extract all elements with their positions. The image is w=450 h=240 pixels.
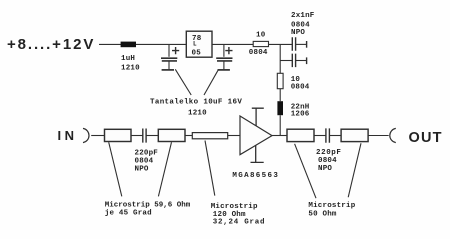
svg-text:NPO: NPO xyxy=(291,29,305,37)
svg-text:je 45 Grad: je 45 Grad xyxy=(105,209,152,217)
resistor R2 10 0804 (vertical) xyxy=(277,73,283,88)
svg-text:Microstrip: Microstrip xyxy=(211,203,258,211)
wire R2 to L2 xyxy=(279,89,281,102)
svg-text:1uH: 1uH xyxy=(121,55,135,63)
svg-text:0804: 0804 xyxy=(249,49,268,57)
ground bar under C1 xyxy=(162,69,174,71)
wire R1 to node A xyxy=(269,43,293,45)
microstrip MS3 thin box xyxy=(192,133,227,139)
microstrip MS1 box xyxy=(105,129,132,141)
capacitor C4 1nF lower: plates xyxy=(292,54,295,68)
op-amp U1 MGA86563 triangle xyxy=(240,116,272,155)
wire MS5 to OUT jack xyxy=(368,135,389,137)
leader line C1 to Tantalelko label xyxy=(175,69,191,95)
wire rail regulator to resistor xyxy=(212,43,253,45)
ground bar under C2 xyxy=(218,69,230,71)
wire supply rail left xyxy=(99,43,121,45)
svg-text:IN: IN xyxy=(58,128,78,143)
microstrip MS2 box xyxy=(158,129,185,141)
leader line MS1 to microstrip label xyxy=(109,142,122,196)
svg-text:Tantalelko 10uF 16V: Tantalelko 10uF 16V xyxy=(150,98,242,106)
svg-text:MGA86563: MGA86563 xyxy=(232,172,279,180)
capacitor C1 tantalum 10uF: drop wire xyxy=(168,44,170,56)
svg-text:Microstrip 59,6 Ohm: Microstrip 59,6 Ohm xyxy=(105,201,191,209)
svg-text:L: L xyxy=(193,41,197,48)
svg-text:0804: 0804 xyxy=(135,158,154,166)
capacitor C2 plus sign xyxy=(225,47,232,54)
leader line MS5 to microstrip 50 label xyxy=(348,143,361,197)
wire MS4 to C6 xyxy=(314,135,326,137)
wire C3 right xyxy=(296,43,307,45)
wire rail inductor to regulator xyxy=(136,43,186,45)
capacitor C2 tantalum 10uF: drop wire xyxy=(223,44,225,56)
regulator U2 78L05 box xyxy=(186,31,212,57)
leader line C2 to Tantalelko label xyxy=(204,70,218,95)
inductor L1 1uH body xyxy=(121,42,136,48)
wire C6 to MS5 xyxy=(329,135,341,137)
node A junction trunk top xyxy=(279,44,281,73)
svg-text:NPO: NPO xyxy=(318,165,332,173)
capacitor C3 1nF upper: plates xyxy=(292,37,295,51)
svg-text:32,24 Grad: 32,24 Grad xyxy=(213,219,266,227)
microstrip MS4 box xyxy=(287,129,314,141)
svg-text:+8....+12V: +8....+12V xyxy=(7,36,95,53)
svg-text:2x1nF: 2x1nF xyxy=(291,12,315,20)
terminal stub C3 xyxy=(306,41,308,48)
svg-text:0804: 0804 xyxy=(318,157,337,165)
ground stub below U1 xyxy=(251,145,264,162)
wire IN to MS1 xyxy=(91,135,104,137)
svg-text:10: 10 xyxy=(256,31,266,39)
wire MS1 to C5 xyxy=(131,135,143,137)
svg-text:NPO: NPO xyxy=(135,166,149,174)
svg-text:220pF: 220pF xyxy=(135,149,159,157)
svg-text:1210: 1210 xyxy=(121,65,140,73)
connector jack OUT (arc) xyxy=(390,128,396,142)
microstrip MS5 box xyxy=(341,129,368,141)
wire C5 to MS2 xyxy=(146,135,158,137)
terminal stub C4 xyxy=(306,57,308,64)
wire C4 right xyxy=(296,60,307,62)
capacitor C1 plus sign xyxy=(172,47,179,54)
svg-text:220pF: 220pF xyxy=(316,149,342,157)
connector jack IN (arc) xyxy=(83,128,89,142)
inductor L2 22nH body xyxy=(277,101,283,115)
capacitor C1 lower wire xyxy=(168,62,170,70)
svg-text:05: 05 xyxy=(192,49,202,57)
leader line MS3 to microstrip 120 label xyxy=(205,141,215,196)
wire amplifier output to MS4 xyxy=(272,135,287,137)
ground stub above U1 xyxy=(252,108,264,126)
svg-text:Microstrip: Microstrip xyxy=(308,202,355,210)
capacitor C2 lower wire xyxy=(223,62,225,70)
wire branch to C4 xyxy=(280,60,292,62)
svg-text:120 Ohm: 120 Ohm xyxy=(213,211,246,219)
wire L2 to output node xyxy=(279,115,281,135)
capacitor C1 plates xyxy=(161,58,177,61)
capacitor C5 220pF plates xyxy=(143,129,146,143)
resistor R1 10 0804 (horizontal) xyxy=(253,41,268,46)
wire MS3 to amplifier xyxy=(228,135,240,137)
svg-text:1206: 1206 xyxy=(291,111,310,119)
svg-text:1210: 1210 xyxy=(188,109,207,117)
svg-text:50 Ohm: 50 Ohm xyxy=(308,210,337,218)
capacitor C2 plates xyxy=(216,58,232,61)
svg-text:0804: 0804 xyxy=(291,83,310,91)
leader line MS2 to microstrip label xyxy=(158,142,171,196)
svg-text:0804: 0804 xyxy=(291,21,310,29)
leader line MS4 to microstrip 50 label xyxy=(295,144,316,198)
capacitor C6 220pF plates xyxy=(326,128,330,142)
svg-text:OUT: OUT xyxy=(409,130,443,146)
wire MS2 to MS3 xyxy=(185,135,192,137)
